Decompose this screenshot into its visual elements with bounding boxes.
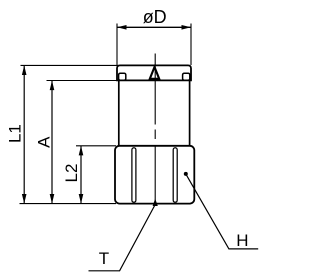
leader arrow T (thread) bbox=[153, 199, 158, 206]
extension line A top bbox=[47, 80, 120, 82]
triangle mark bbox=[150, 67, 159, 79]
leader line T bbox=[89, 205, 156, 271]
arrowhead øD left bbox=[117, 25, 127, 30]
leader line H bbox=[186, 174, 258, 249]
svg-text:A: A bbox=[34, 136, 53, 148]
hex corner facet left bbox=[132, 148, 136, 203]
body right edge bbox=[189, 80, 191, 145]
cap notch left bbox=[119, 73, 126, 80]
cap notch right bbox=[183, 73, 190, 80]
extension line bottom bbox=[20, 203, 117, 205]
arrowhead øD right bbox=[182, 25, 192, 30]
extension line L2 top bbox=[76, 145, 116, 147]
svg-text:øD: øD bbox=[143, 7, 167, 27]
dimension A bbox=[34, 81, 54, 204]
svg-text:L2: L2 bbox=[62, 164, 81, 183]
centerline axis bbox=[154, 54, 156, 203]
leader dot H bbox=[184, 172, 188, 176]
body left edge bbox=[118, 80, 120, 145]
hex corner facet right bbox=[173, 148, 177, 203]
extension line top (to L1) bbox=[21, 64, 119, 66]
svg-text:L1: L1 bbox=[6, 124, 25, 143]
dimension L2 bbox=[62, 146, 83, 204]
svg-text:H: H bbox=[236, 231, 248, 250]
hex nut outline bbox=[115, 146, 194, 204]
release collar cap bbox=[117, 65, 191, 80]
dimension line øD bbox=[117, 26, 191, 28]
extension line øD left bbox=[116, 24, 118, 66]
dimension L1 bbox=[6, 65, 27, 203]
svg-text:T: T bbox=[99, 249, 109, 268]
extension line øD right bbox=[190, 24, 192, 66]
